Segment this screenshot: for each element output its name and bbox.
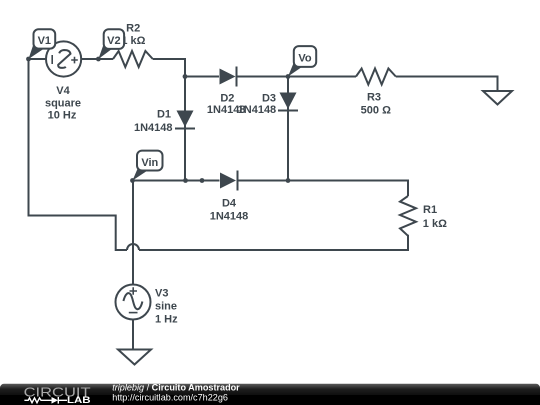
V3 sine glyph [123, 293, 142, 309]
junction dot D3 bottom [286, 178, 291, 183]
wire node to D2 anode [185, 76, 219, 78]
svg-text:R1: R1 [423, 204, 437, 216]
wire top-left V1 node to V4 [29, 58, 47, 60]
svg-text:1 kΩ: 1 kΩ [423, 218, 447, 230]
svg-text:V2: V2 [107, 35, 120, 47]
svg-text:LAB: LAB [67, 395, 91, 405]
svg-text:D2: D2 [220, 92, 234, 104]
V3 plus sign [130, 287, 138, 294]
diode D1 cathode bar [175, 128, 195, 130]
diode D2 triangle [220, 69, 236, 85]
footer bar [0, 384, 540, 405]
svg-text:R2: R2 [126, 23, 140, 35]
wire Vin node to D4 anode [133, 180, 220, 182]
wire bottom rail left of hop [29, 59, 128, 250]
flag tail V2 [98, 44, 112, 59]
svg-text:sine: sine [155, 300, 177, 312]
logo resistor squiggle [24, 398, 51, 403]
wire Vo node to R3 [288, 76, 356, 78]
wire D4 cathode to D3 bottom [239, 180, 289, 182]
junction dot R2-D1-D2 [183, 74, 188, 79]
svg-text:1N4148: 1N4148 [210, 210, 249, 222]
junction dot Vo node [286, 74, 291, 79]
wire R3 to right corner down [396, 77, 498, 92]
wire V4 to R2 [81, 58, 113, 60]
wire R2 to corner and down to node [153, 59, 185, 77]
flag box V2 [104, 29, 124, 49]
wire hop over V3 branch [127, 244, 139, 250]
wire R1 bottom to bottom rail [139, 235, 408, 250]
svg-text:Vo: Vo [298, 53, 312, 65]
logo diode [52, 397, 59, 404]
svg-text:1N4148: 1N4148 [134, 122, 173, 134]
svg-text:1 Hz: 1 Hz [155, 313, 178, 325]
svg-text:D3: D3 [262, 92, 276, 104]
flag tail Vo [288, 63, 302, 77]
resistor R2 [113, 51, 153, 67]
resistor R3 [356, 69, 396, 85]
diode D3 triangle [280, 93, 297, 110]
svg-text:1N4148: 1N4148 [238, 104, 277, 116]
junction dot V2 node [96, 57, 101, 62]
resistor R1 [400, 196, 416, 236]
voltage source V4 circle [46, 41, 81, 76]
svg-text:500 Ω: 500 Ω [361, 104, 391, 116]
wire D1 branch vertical [184, 77, 186, 181]
flag box Vin [137, 151, 163, 171]
svg-text:V3: V3 [155, 287, 168, 299]
svg-text:D4: D4 [222, 198, 237, 210]
svg-text:square: square [45, 97, 81, 109]
flag box Vo [294, 46, 316, 67]
flag box V1 [34, 29, 56, 48]
svg-text:V1: V1 [38, 35, 51, 47]
junction dot Vin node [130, 178, 135, 183]
svg-text:V4: V4 [56, 85, 70, 97]
junction dot mid [200, 178, 205, 183]
svg-text:D1: D1 [157, 109, 171, 121]
wire D2 cathode to Vo node [237, 76, 288, 78]
ground bottom [118, 350, 151, 365]
V4 minus bar [51, 55, 53, 64]
V4 plus sign [71, 57, 78, 64]
flag tail Vin [133, 167, 148, 181]
junction dot V1 node [26, 57, 31, 62]
diode D3 cathode bar [278, 110, 298, 112]
svg-text:R3: R3 [367, 91, 381, 103]
diode D2 cathode bar [236, 67, 238, 87]
V3 minus sign [129, 312, 138, 314]
flag tail V1 [29, 44, 45, 59]
V4 square glyph [58, 50, 70, 68]
voltage source V3 circle [116, 285, 151, 320]
svg-text:triplebig / Circuito Amostrado: triplebig / Circuito Amostrador [112, 383, 240, 393]
wire V3 to ground [132, 320, 134, 350]
wire D3 branch vertical [287, 77, 289, 181]
svg-text:http://circuitlab.com/c7h22g6: http://circuitlab.com/c7h22g6 [112, 392, 228, 402]
diode D4 cathode bar [237, 171, 239, 191]
diode D4 triangle [220, 173, 236, 189]
svg-text:Vin: Vin [141, 157, 158, 169]
svg-text:10 Hz: 10 Hz [48, 110, 77, 122]
wire D3 bottom to R1 top [288, 181, 408, 197]
diode D1 triangle [177, 111, 194, 128]
wire Vin node down to V3 [132, 181, 134, 285]
junction dot D1 bottom [183, 178, 188, 183]
ground right [483, 91, 512, 105]
